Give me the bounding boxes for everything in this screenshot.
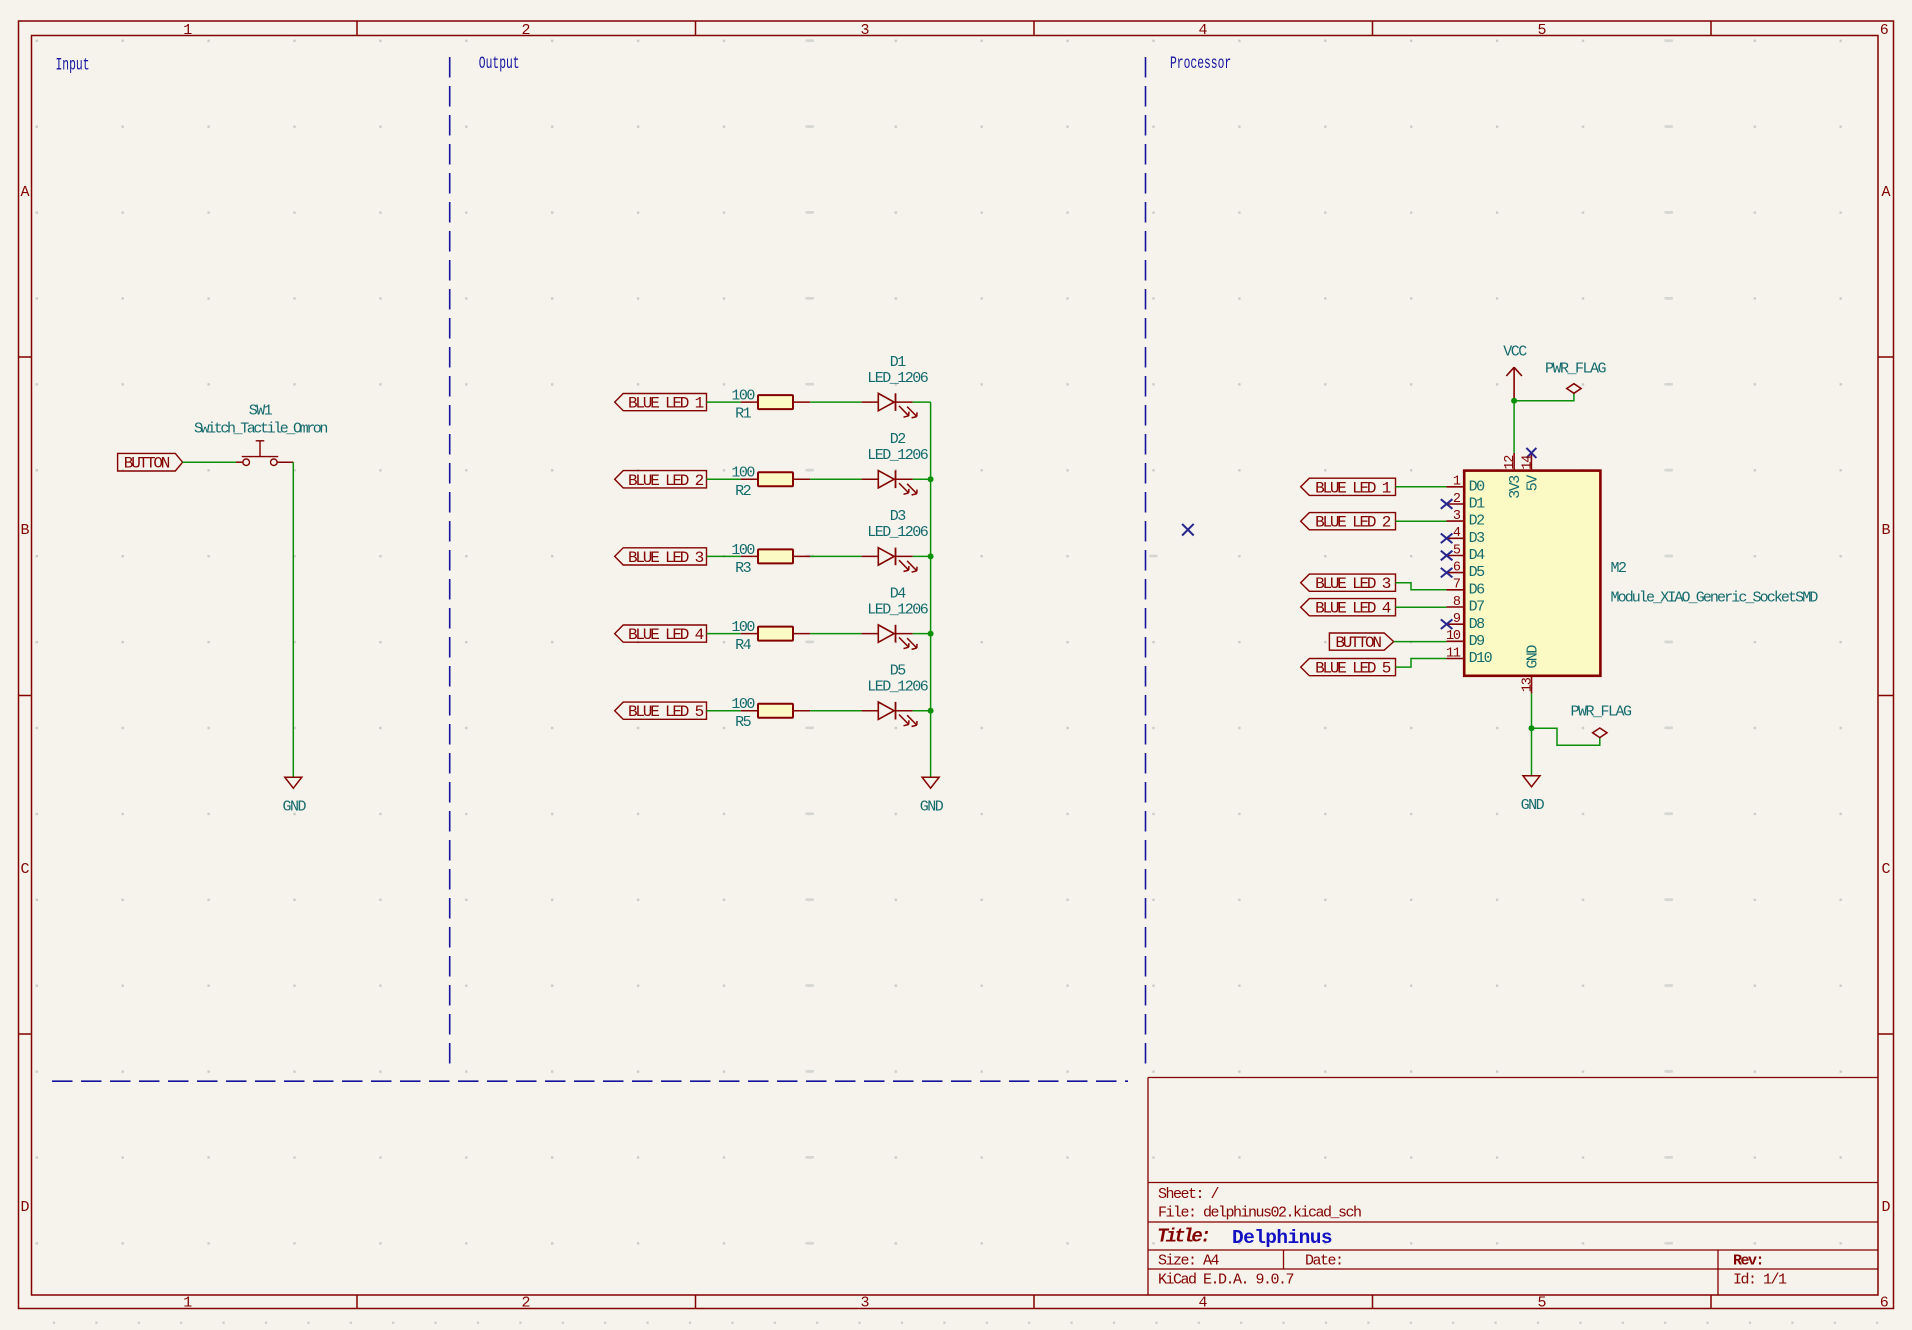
svg-text:A: A [20,184,29,201]
svg-text:6: 6 [1880,1294,1889,1311]
svg-text:LED_1206: LED_1206 [867,447,929,464]
svg-text:2: 2 [521,22,530,39]
svg-text:3: 3 [860,1294,869,1311]
svg-text:2: 2 [1453,492,1461,507]
svg-text:D5: D5 [1469,564,1486,581]
svg-text:5: 5 [1453,543,1461,558]
svg-text:100: 100 [731,542,755,559]
svg-text:5: 5 [1537,1294,1546,1311]
svg-text:R2: R2 [735,483,751,500]
svg-text:6: 6 [1880,22,1889,39]
svg-text:D: D [20,1199,29,1216]
svg-text:5: 5 [1537,22,1546,39]
svg-text:D2: D2 [890,431,906,448]
svg-text:BLUE LED 4: BLUE LED 4 [628,626,704,644]
svg-text:BLUE LED 3: BLUE LED 3 [628,549,704,567]
svg-text:PWR_FLAG: PWR_FLAG [1570,704,1632,721]
svg-text:100: 100 [731,465,755,482]
svg-text:C: C [1881,861,1890,878]
svg-text:100: 100 [731,696,755,713]
svg-text:KiCad E.D.A. 9.0.7: KiCad E.D.A. 9.0.7 [1158,1272,1294,1289]
svg-text:1: 1 [183,1294,192,1311]
svg-text:D2: D2 [1469,513,1485,530]
svg-text:BLUE LED 2: BLUE LED 2 [1315,514,1391,532]
svg-text:3: 3 [860,22,869,39]
svg-text:GND: GND [282,798,306,815]
svg-text:C: C [20,861,29,878]
svg-text:R4: R4 [735,637,752,654]
svg-text:Id: 1/1: Id: 1/1 [1733,1272,1787,1289]
svg-text:100: 100 [731,388,755,405]
svg-text:GND: GND [1525,645,1542,669]
svg-text:Output: Output [479,53,520,75]
svg-text:BLUE LED 2: BLUE LED 2 [628,472,704,490]
svg-text:D9: D9 [1469,633,1485,650]
svg-text:R1: R1 [735,406,752,423]
svg-text:BLUE LED 3: BLUE LED 3 [1315,575,1391,593]
svg-text:BLUE LED 4: BLUE LED 4 [1315,600,1391,618]
svg-text:R5: R5 [735,714,752,731]
svg-text:D1: D1 [1469,496,1486,513]
svg-text:B: B [1881,522,1890,539]
svg-text:BLUE LED 1: BLUE LED 1 [1315,479,1391,497]
svg-text:D3: D3 [1469,530,1486,547]
svg-text:D7: D7 [1469,599,1485,616]
svg-text:6: 6 [1453,560,1461,575]
svg-text:D1: D1 [890,354,907,371]
svg-text:BUTTON: BUTTON [124,455,170,473]
svg-text:Switch_Tactile_Omron: Switch_Tactile_Omron [194,420,327,437]
svg-text:D4: D4 [890,585,907,602]
svg-text:2: 2 [521,1294,530,1311]
svg-text:BLUE LED 5: BLUE LED 5 [1315,660,1391,678]
svg-text:4: 4 [1198,1294,1207,1311]
svg-text:LED_1206: LED_1206 [867,601,929,618]
svg-text:Title:: Title: [1157,1226,1209,1248]
svg-text:D5: D5 [890,663,907,680]
svg-text:D10: D10 [1469,650,1493,667]
svg-text:BLUE LED 5: BLUE LED 5 [628,703,704,721]
svg-text:13: 13 [1520,677,1535,692]
svg-text:BUTTON: BUTTON [1335,634,1381,652]
svg-text:B: B [20,522,29,539]
svg-text:R3: R3 [735,560,752,577]
svg-text:GND: GND [1521,797,1545,814]
svg-text:LED_1206: LED_1206 [867,370,929,387]
svg-text:4: 4 [1198,22,1207,39]
svg-text:1: 1 [183,22,192,39]
svg-text:Size: A4: Size: A4 [1158,1253,1220,1270]
svg-text:D0: D0 [1469,478,1486,495]
svg-text:BLUE LED 1: BLUE LED 1 [628,395,704,413]
svg-text:7: 7 [1453,578,1461,593]
svg-text:M2: M2 [1611,560,1627,577]
svg-text:Module_XIAO_Generic_SocketSMD: Module_XIAO_Generic_SocketSMD [1611,590,1819,607]
svg-text:D6: D6 [1469,581,1486,598]
svg-text:4: 4 [1453,526,1461,541]
svg-text:File: delphinus02.kicad_sch: File: delphinus02.kicad_sch [1158,1205,1361,1222]
svg-text:8: 8 [1453,595,1461,610]
svg-text:LED_1206: LED_1206 [867,524,929,541]
svg-text:11: 11 [1446,646,1461,661]
svg-text:Input: Input [56,54,90,76]
svg-text:GND: GND [920,798,944,815]
svg-text:9: 9 [1453,612,1461,627]
svg-text:D8: D8 [1469,616,1486,633]
svg-text:Processor: Processor [1170,53,1231,75]
svg-text:Rev:: Rev: [1733,1253,1763,1270]
svg-text:14: 14 [1520,455,1535,470]
svg-text:SW1: SW1 [249,403,273,420]
svg-text:1: 1 [1453,475,1461,490]
svg-text:D3: D3 [890,508,907,525]
svg-text:3: 3 [1453,509,1461,524]
svg-text:LED_1206: LED_1206 [867,678,929,695]
svg-text:A: A [1881,184,1890,201]
svg-text:100: 100 [731,619,755,636]
svg-text:Date:: Date: [1305,1253,1343,1270]
svg-text:D4: D4 [1469,547,1486,564]
svg-text:D: D [1881,1199,1890,1216]
svg-text:PWR_FLAG: PWR_FLAG [1545,360,1607,377]
svg-text:VCC: VCC [1503,343,1527,360]
svg-text:12: 12 [1503,455,1518,470]
svg-text:10: 10 [1446,629,1461,644]
svg-text:5V: 5V [1525,475,1542,492]
svg-text:3V3: 3V3 [1507,475,1524,499]
svg-text:Delphinus: Delphinus [1232,1227,1332,1249]
svg-text:Sheet: /: Sheet: / [1158,1186,1220,1203]
